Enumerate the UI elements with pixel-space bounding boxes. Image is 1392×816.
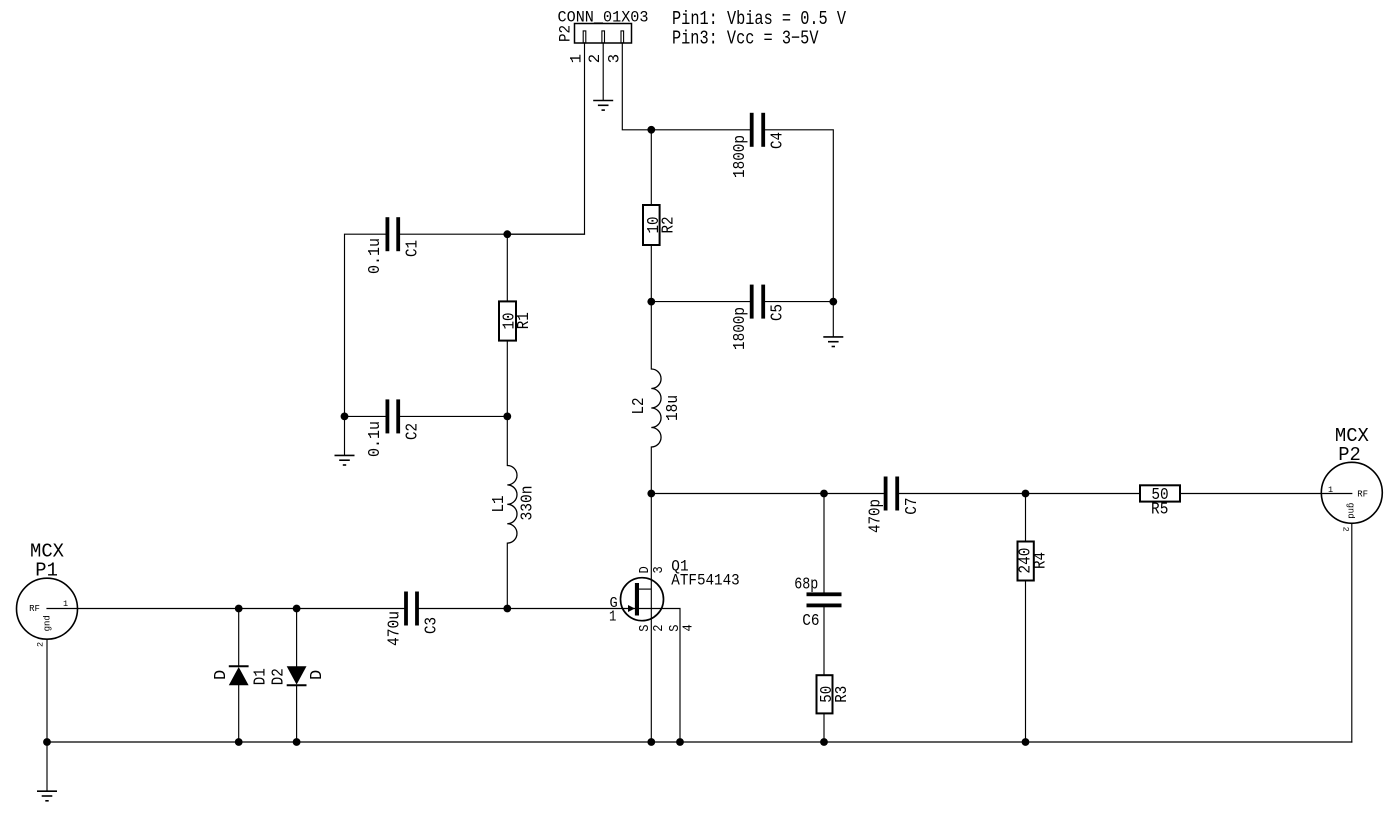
wire C4 right to corner and down to C5 row [765, 130, 833, 302]
capacitor C5 plates [750, 285, 754, 319]
wire drain pin down through Q1 to bus [650, 494, 652, 743]
diode D2 cathode bar [287, 684, 307, 686]
svg-text:1: 1 [568, 54, 586, 63]
svg-text:470p: 470p [867, 499, 886, 533]
transistor Q1 channel bar [635, 583, 639, 616]
resistor R2 body [643, 205, 660, 245]
capacitor C1 plates [386, 217, 390, 251]
transistor Q1 circle [621, 578, 664, 621]
diode D1 triangle [229, 667, 249, 685]
svg-text:C4: C4 [769, 132, 788, 149]
connector P2 CONN_01X03 body [575, 24, 632, 44]
svg-text:CONN_01X03: CONN_01X03 [558, 9, 649, 27]
svg-text:L2: L2 [630, 398, 649, 415]
svg-text:330n: 330n [518, 486, 537, 521]
svg-text:RF: RF [1357, 490, 1368, 500]
svg-text:D: D [212, 670, 231, 680]
wire C5 node down to L2 top [650, 302, 652, 369]
wire C1 row: left riser to C1 left plate [345, 234, 386, 416]
resistor R3 body [817, 675, 833, 713]
wire R2 bottom to C5 node [650, 245, 652, 302]
wire R1 node down to R1 top [506, 234, 508, 301]
svg-text:1800p: 1800p [731, 307, 750, 350]
svg-text:3: 3 [605, 54, 623, 63]
svg-text:D: D [308, 670, 327, 680]
svg-text:2: 2 [35, 642, 45, 647]
wire R4 node down to R4 top [1025, 494, 1027, 542]
inductor L2 [651, 369, 661, 447]
wire Vcc node down to R2 top [650, 130, 652, 205]
svg-text:R4: R4 [1032, 552, 1051, 569]
ground under C5 right node [823, 337, 843, 347]
connector P2 pin 3 stub [621, 31, 624, 43]
svg-text:C5: C5 [769, 304, 788, 321]
capacitor C6 plates [807, 592, 842, 596]
resistor R1 body [499, 301, 516, 340]
wire P2 conn pin1 down [507, 43, 584, 234]
diode D2 triangle [287, 666, 307, 684]
svg-text:1: 1 [63, 599, 68, 609]
connector P2 MCX circle [1321, 462, 1382, 523]
wire C7 right plate to R4 node to R5 left [899, 493, 1140, 495]
svg-text:D1: D1 [251, 668, 270, 685]
svg-text:68p: 68p [794, 576, 818, 595]
svg-text:2: 2 [586, 54, 604, 63]
transistor Q1 gate arrow [628, 605, 635, 612]
wire D2 bottom to bus [296, 685, 298, 742]
wire drain node row right: to C6 node and C7 left plate [651, 493, 883, 495]
wire P2 conn pin3 down to Vcc node [622, 43, 651, 130]
ground under P1 [37, 791, 57, 801]
resistor R5 body [1140, 485, 1180, 501]
wire D1 top [238, 609, 240, 667]
wire C2 row right [400, 415, 507, 417]
wire ground bus [47, 741, 1352, 743]
svg-text:R1: R1 [515, 312, 534, 329]
svg-text:470u: 470u [386, 611, 405, 646]
wire L2 bottom to drain node [650, 447, 652, 494]
capacitor C7 plates [884, 477, 888, 511]
wire Q1 source right to pin4 corner down [639, 609, 680, 743]
wire D1 bottom to bus [238, 685, 240, 742]
svg-text:3: 3 [651, 566, 667, 573]
wire P1 pin2 down to bus [46, 639, 48, 742]
inductor L1 [507, 466, 517, 544]
resistor R4 body [1018, 542, 1034, 581]
wire C2 row left [345, 415, 386, 417]
svg-text:C3: C3 [422, 617, 441, 634]
svg-text:P2: P2 [1338, 444, 1361, 466]
capacitor C2 plates [386, 399, 390, 433]
svg-text:R3: R3 [833, 686, 852, 703]
wire gate row: C3 right plate to Q1 [419, 608, 635, 610]
wire R1 bottom to C2 node [506, 341, 508, 417]
wire C5 right to corner node [765, 301, 833, 303]
wire gate row: P1 RF to C3 left plate [47, 608, 404, 610]
wire C5 node left to C5 left plate [651, 301, 750, 303]
svg-text:1: 1 [1328, 485, 1333, 495]
svg-text:R5: R5 [1151, 501, 1168, 520]
svg-text:18u: 18u [664, 395, 683, 421]
wire C1 right plate to R1 node to pin1 drop [400, 233, 584, 235]
svg-text:4: 4 [681, 624, 697, 631]
svg-text:D2: D2 [270, 668, 289, 685]
svg-text:RF: RF [29, 604, 40, 614]
wire C2 left node down to ground G2 [344, 416, 346, 455]
connector P1 MCX circle [17, 578, 78, 639]
wire C6 node down to C6 top plate [823, 494, 825, 593]
svg-text:1800p: 1800p [731, 135, 750, 178]
connector P2 pin 1 stub [583, 31, 586, 43]
connector P2 pin 2 stub [602, 31, 605, 43]
svg-text:gnd: gnd [43, 615, 53, 631]
wire R5 right to P2 RF [1180, 493, 1352, 495]
svg-text:0.1u: 0.1u [366, 421, 385, 457]
svg-text:P1: P1 [35, 559, 58, 581]
wire R3 bottom to bus [823, 713, 825, 742]
svg-text:ATF54143: ATF54143 [671, 572, 739, 590]
svg-text:C2: C2 [403, 423, 422, 440]
wire D2 top [296, 609, 298, 667]
wire L1 bottom to gate row [506, 543, 508, 608]
svg-text:C6: C6 [802, 612, 819, 631]
capacitor C4 plates [750, 113, 754, 147]
svg-text:C7: C7 [903, 498, 922, 515]
svg-text:C1: C1 [403, 240, 422, 257]
ground under connector pin2 [593, 101, 613, 111]
wire R4 bottom to bus [1025, 581, 1027, 743]
svg-text:gnd: gnd [1346, 503, 1356, 519]
svg-text:2: 2 [1341, 527, 1351, 532]
svg-text:L1: L1 [490, 496, 509, 513]
capacitor C3 plates [404, 592, 408, 626]
wire P2 pin2 down to bus [1351, 523, 1353, 742]
svg-text:0.1u: 0.1u [366, 238, 385, 274]
diode D1 cathode bar [229, 665, 249, 667]
svg-text:R2: R2 [659, 217, 678, 234]
svg-text:P2: P2 [557, 25, 575, 42]
svg-text:Pin3: Vcc = 3−5V: Pin3: Vcc = 3−5V [672, 27, 819, 49]
wire C2 node down to L1 top [506, 416, 508, 465]
wire P2 conn pin2 to ground [602, 43, 604, 100]
wire Vcc node to C4 left [651, 129, 750, 131]
wire C6 bottom plate to R3 top [823, 607, 825, 675]
wire corner node down to ground G3 [832, 302, 834, 337]
ground under C2 left node [335, 455, 355, 465]
svg-text:2: 2 [651, 625, 667, 632]
wire P1 ground drop [46, 742, 48, 791]
svg-text:1: 1 [609, 609, 616, 626]
transistor Q1 drain link [639, 588, 651, 590]
